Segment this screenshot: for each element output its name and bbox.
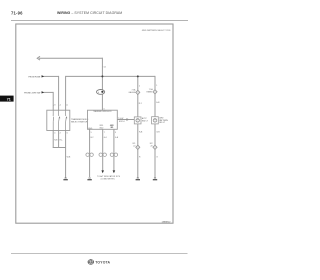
wires below switch (53, 131, 66, 178)
connector ticks on output wire (126, 118, 128, 121)
svg-text:GAUGE: GAUGE (129, 91, 137, 94)
svg-text:FROM FUSE: FROM FUSE (29, 76, 41, 78)
svg-text:1J: 1J (104, 67, 106, 69)
switch contact 1 (52, 110, 54, 130)
footer rule (11, 253, 188, 255)
ground G3 (136, 178, 140, 180)
svg-text:SELECT SWITCH: SELECT SWITCH (71, 122, 88, 124)
connector pair J2 (99, 153, 106, 156)
svg-text:71-96: 71-96 (11, 10, 23, 15)
svg-text:7 G-W: 7 G-W (118, 118, 124, 120)
svg-text:WIRING – SYSTEM CIRCUIT DIAGRA: WIRING – SYSTEM CIRCUIT DIAGRAM (57, 11, 122, 15)
switch contact 2 (58, 110, 61, 130)
noise filter on motor wire (97, 90, 105, 95)
ECU bottom wires (90, 129, 114, 177)
connector pair J3 (110, 153, 117, 156)
pattern select switch SW1 (47, 110, 70, 130)
svg-text:IK3 14: IK3 14 (119, 121, 124, 123)
junction node A (101, 75, 103, 77)
ground G4 (153, 178, 157, 180)
svg-text:22: 22 (133, 146, 135, 148)
svg-text:188BE02: 188BE02 (161, 221, 171, 223)
svg-text:PANEL: PANEL (147, 91, 153, 94)
indicator lamp L2 (152, 117, 159, 124)
ECU output wire to lamp (117, 119, 134, 121)
svg-text:GND: GND (88, 128, 93, 130)
svg-text:4WD PATTERN SELECT SYS: 4WD PATTERN SELECT SYS (142, 29, 171, 32)
svg-text:7: 7 (104, 132, 105, 134)
transfer control ECU U1 (88, 110, 118, 129)
connector C2 (153, 145, 157, 149)
fuse F1 (136, 90, 140, 94)
border frame (16, 24, 173, 223)
wire: main feed with open arrow (37, 56, 102, 110)
wires below lamps (138, 124, 155, 178)
toyota logo emblem (88, 260, 94, 265)
svg-text:IND LT: IND LT (142, 120, 149, 122)
section tab 71 (0, 96, 14, 102)
connector C1 (136, 145, 140, 149)
fuse F2 (153, 90, 157, 94)
switch contact 3 (65, 110, 68, 130)
svg-text:TOYOTA: TOYOTA (95, 260, 110, 264)
svg-text:9: 9 (115, 132, 116, 134)
ground G1 (63, 178, 67, 180)
arrow down A2 (113, 170, 116, 173)
svg-text:5: 5 (91, 132, 92, 134)
svg-text:3: 3 (103, 109, 104, 111)
arrow down A1 (101, 170, 104, 173)
svg-text:20: 20 (150, 146, 152, 148)
junction node B (137, 75, 139, 77)
svg-text:2: 2 (139, 86, 140, 88)
svg-text:IND LT: IND LT (159, 122, 166, 124)
svg-text:R-L: R-L (60, 140, 63, 142)
svg-text:(COMB. METER): (COMB. METER) (101, 178, 115, 180)
svg-text:G-O: G-O (104, 137, 108, 139)
ground G2 (87, 178, 91, 180)
svg-text:71: 71 (7, 98, 11, 102)
wire: bus B+ (66, 76, 155, 117)
connector pair J1 (86, 153, 93, 156)
svg-text:1: 1 (156, 85, 157, 87)
svg-text:IND2: IND2 (99, 127, 103, 129)
indicator lamp L1 (134, 117, 141, 124)
header rule (11, 20, 188, 22)
svg-text:FROM LIGHT SW: FROM LIGHT SW (24, 92, 40, 94)
